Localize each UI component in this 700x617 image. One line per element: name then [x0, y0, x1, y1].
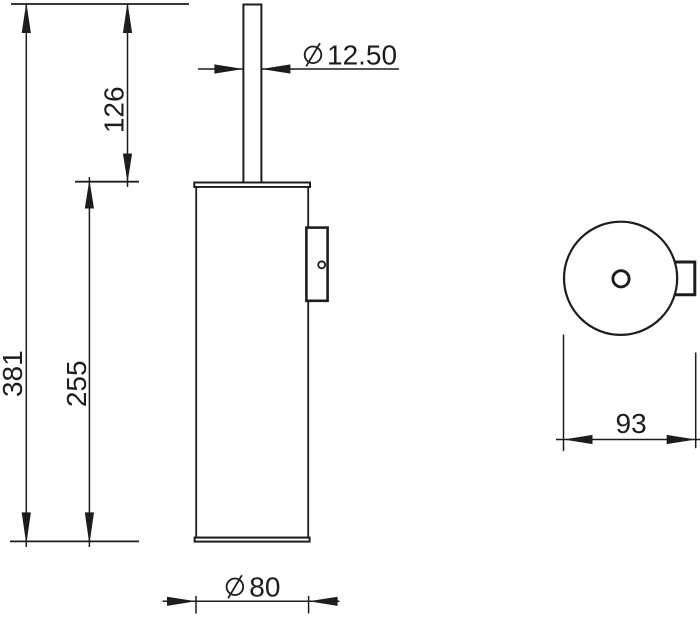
dimension 381: bottom arrowhead — [22, 512, 31, 544]
dimension 12.50: horizontal dimension line — [198, 68, 399, 70]
svg-text:80: 80 — [249, 571, 280, 602]
dimension 80: diameter symbol — [227, 575, 244, 598]
svg-text:255: 255 — [61, 360, 92, 407]
extension line: cylinder bottom, y=541.4 — [10, 540, 139, 542]
dimension 381: vertical dimension line — [25, 4, 27, 547]
dimension 80: left arrowhead — [167, 597, 196, 606]
dimension 126: bottom arrowhead — [123, 154, 132, 183]
extension line: rod top, y=4 — [11, 3, 189, 5]
top view: center hole circle — [613, 271, 629, 287]
svg-text:12.50: 12.50 — [327, 40, 397, 71]
dimension 255: vertical dimension line — [88, 177, 90, 547]
dimension 255: top arrowhead — [85, 180, 94, 209]
dimension 80: horizontal dimension line — [163, 600, 340, 602]
dimension 80: right arrowhead — [309, 597, 338, 606]
bracket screw hole — [318, 261, 325, 268]
dimension 12.50: left arrowhead — [214, 64, 243, 73]
dimension 93: left extension line — [563, 335, 565, 452]
cylinder body — [196, 187, 308, 538]
rod (brush handle) — [243, 5, 261, 183]
dimension 12.50: diameter symbol — [305, 43, 322, 66]
dimension 93: right arrowhead — [667, 435, 696, 444]
top view: cylinder outline circle — [564, 222, 677, 335]
svg-text:126: 126 — [98, 86, 129, 133]
dimension 126: vertical dimension line — [127, 4, 129, 187]
dimension 255: bottom arrowhead — [85, 512, 94, 544]
dimension 80: left extension tick — [195, 596, 197, 614]
dimension 12.50: right arrowhead — [261, 64, 290, 73]
dimension 93: horizontal dimension line — [556, 439, 700, 441]
dimension 381: top arrowhead — [22, 2, 31, 33]
top view: mounting tab (drawn first, partly hidden by circle) — [672, 262, 695, 295]
svg-text:93: 93 — [616, 408, 647, 439]
dimension 80: right extension tick — [308, 596, 310, 614]
dimension 126: top arrowhead — [123, 2, 132, 33]
extension line: flange top, y=181.7 — [75, 181, 139, 183]
dimension 93: left arrowhead — [564, 435, 593, 444]
wall-mount bracket plate — [306, 228, 327, 301]
svg-text:381: 381 — [0, 350, 28, 397]
top flange (lid rim) — [194, 183, 310, 188]
bottom flange (base rim) — [195, 538, 310, 542]
dimension 93: right extension line — [695, 353, 697, 449]
